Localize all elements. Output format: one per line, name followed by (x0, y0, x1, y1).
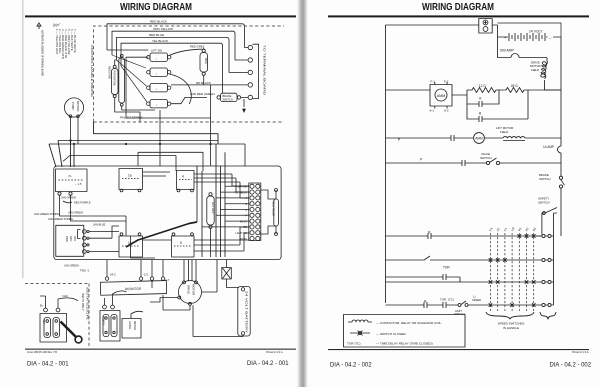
bottom rule right page (328, 349, 589, 350)
svg-text:DRIVE: DRIVE (187, 285, 191, 294)
wire switch1 to RES (169, 48, 204, 56)
resistor .12 ohm (452, 84, 499, 95)
svg-text:-2.5: -2.5 (143, 272, 148, 276)
dashed speed-switch columns F3 F2 F1 1/0 R1 R2 R3 (491, 233, 534, 311)
svg-text:14 AMP: 14 AMP (543, 145, 554, 149)
svg-text:KEY: KEY (42, 320, 45, 325)
svg-text:FIELD: FIELD (531, 68, 539, 72)
title underline right page (328, 15, 589, 17)
fuse block F1 (222, 268, 232, 280)
wire pot bottom to box exit (115, 98, 140, 122)
svg-text:F-2: F-2 (444, 80, 449, 84)
speed row 1 (386, 213, 558, 239)
disconnect switch terminals (103, 305, 107, 309)
svg-text:SPEED: SPEED (472, 298, 481, 302)
disconnect switch DS (100, 311, 120, 342)
brake switch SW-B (217, 93, 241, 101)
wire pump motor to bus (71, 118, 79, 145)
svg-text:LIFT SW: LIFT SW (238, 186, 248, 189)
svg-text:.05 Ω: .05 Ω (510, 84, 518, 88)
svg-text:24 VOLT: 24 VOLT (529, 30, 542, 34)
wire motor left (150, 298, 178, 303)
14 amp fuse in right rail (543, 90, 561, 163)
svg-text:7 — BLUE WHITE: 7 — BLUE WHITE (73, 29, 77, 53)
main fuse CB1 (479, 19, 492, 34)
right terminus rail (553, 236, 555, 305)
right rail upper (560, 37, 562, 90)
wire fuse to battery (492, 25, 497, 37)
svg-text:— SWITCH CLOSED: — SWITCH CLOSED (376, 332, 407, 336)
svg-text:MOTOR: MOTOR (192, 284, 196, 296)
pump contactor P (56, 169, 88, 200)
wire battery bottom to truck (193, 305, 243, 336)
bus wire from handle box left (94, 122, 219, 144)
wire disconnect up (105, 291, 127, 305)
wire RES bottom down (203, 75, 205, 85)
svg-text:1a: 1a (128, 173, 132, 177)
svg-text:Printed in U.S.A.: Printed in U.S.A. (266, 350, 283, 354)
key switch KS (40, 314, 67, 343)
svg-text:A-1: A-1 (430, 109, 435, 113)
handle switch S2 (147, 68, 171, 76)
svg-text:LIFT RES: LIFT RES (211, 202, 215, 214)
svg-text:RED BLACK: RED BLACK (150, 20, 167, 24)
wires key switch up (40, 296, 78, 308)
battery loop outline (498, 23, 562, 37)
wire rd black to terminal 4 (171, 84, 248, 86)
svg-text:B+: B+ (40, 304, 44, 308)
svg-text:1₎ₒ: 1₎ₒ (473, 294, 476, 298)
vertical feeders mid (197, 144, 225, 257)
ammeter AMM (shunt box) (430, 80, 453, 113)
svg-text:RESISTOR: RESISTOR (108, 66, 111, 79)
wire fuse to enclosure (226, 260, 228, 268)
svg-text:SWITCH: SWITCH (539, 177, 550, 181)
brace under speed columns (486, 312, 534, 319)
svg-text:JAN GREEN STRIPE: JAN GREEN STRIPE (48, 217, 73, 221)
resistor (power unit) vertical (207, 193, 215, 229)
svg-text:DIA - 04.2 - 001: DIA - 04.2 - 001 (27, 361, 69, 368)
svg-text:JAN GREEN: JAN GREEN (61, 196, 76, 200)
wires drive motor to enclosure (184, 260, 217, 292)
resistor .05 ohm (499, 84, 561, 93)
second feeder (159, 110, 161, 166)
pump motor M1 (64, 98, 83, 117)
svg-text:DIA - 04.2 - 002: DIA - 04.2 - 002 (330, 362, 372, 369)
svg-text:TWO -2: TWO -2 (80, 269, 90, 273)
svg-text:RES: RES (204, 58, 208, 64)
left rail (385, 25, 387, 303)
svg-text:JAN GREEN STRIPE: JAN GREEN STRIPE (34, 212, 59, 216)
svg-text:||•|²•°: ||•|²•° (53, 23, 61, 27)
legend switch-closed symbol (350, 331, 370, 336)
wiper bar (vertical) (119, 58, 125, 104)
svg-text:DIA - 04.2 - 001: DIA - 04.2 - 001 (247, 360, 289, 367)
svg-text:FIELD RESIST: FIELD RESIST (272, 201, 275, 218)
bus wire upper horizontal 2 (49, 144, 245, 166)
wire fuse to battery (227, 279, 240, 288)
svg-text:OFF: OFF (73, 236, 77, 242)
svg-text:TO TERMINAL BOARD: TO TERMINAL BOARD (263, 45, 267, 96)
relay lower wires (143, 227, 250, 251)
wires joining switches left side (107, 50, 148, 102)
svg-text:REV: REV (69, 236, 73, 242)
svg-text:YEL BLACK: YEL BLACK (152, 39, 168, 43)
handle switch S1 (147, 49, 171, 62)
svg-text:JAN BLUE: JAN BLUE (93, 222, 106, 226)
legend box (344, 315, 466, 348)
speed row 3 (386, 280, 554, 284)
svg-text:— CONTACTOR, RELAY OR SOLENOI: — CONTACTOR, RELAY OR SOLENOID COIL (376, 321, 442, 325)
svg-text:UNITS ONLY: UNITS ONLY (81, 293, 85, 311)
curved wire from S2 right (169, 74, 191, 104)
wire bus inside handle box (126, 57, 211, 118)
potentiometer resistor (vertical) (108, 65, 119, 97)
svg-text:TOR: TOR (440, 297, 446, 301)
svg-text:SWITCH: SWITCH (538, 200, 549, 204)
svg-text:LIFT SW: LIFT SW (151, 49, 162, 53)
drive motor studs (183, 281, 186, 284)
terminal board TB1 (234, 183, 260, 241)
wire fan into terminal board (202, 186, 249, 227)
svg-text:WIRING DIAGRAM: WIRING DIAGRAM (120, 2, 192, 13)
wire relay c bottom (131, 236, 156, 258)
emphasized wire diagonal (126, 222, 197, 247)
svg-text:RD-BT: RD-BT (240, 220, 248, 223)
svg-text:BRAKE: BRAKE (223, 94, 232, 98)
svg-text:RD BLACK: RD BLACK (196, 81, 211, 85)
anchor glyph alternate placement note (37, 23, 41, 29)
svg-text:500 AMP: 500 AMP (500, 48, 514, 52)
svg-text:LIMIT: LIMIT (455, 309, 462, 313)
svg-text:CHG: CHG (62, 294, 68, 298)
wire from hour meter (131, 311, 143, 318)
svg-text:WIRING DIAGRAM: WIRING DIAGRAM (422, 2, 494, 13)
svg-text:HOUR: HOUR (128, 322, 132, 330)
wire bus lower (63, 156, 176, 172)
relay B (177, 171, 195, 192)
wires enclosure to resistor bar (107, 260, 163, 277)
wires selector to relays (89, 226, 119, 252)
wire resistor bottom (210, 228, 212, 257)
svg-text:(TC): (TC) (448, 297, 454, 301)
resistor R-BAR (100, 281, 166, 296)
key lever (61, 322, 77, 338)
svg-text:Printed in U.S.A.: Printed in U.S.A. (572, 350, 589, 354)
inner distribution rect (138, 152, 203, 171)
title underline (25, 15, 296, 17)
svg-text:SWITCH: SWITCH (223, 97, 233, 101)
svg-text:24 VOLT BATTERY: 24 VOLT BATTERY (245, 291, 249, 333)
svg-text:POWER: POWER (101, 316, 103, 325)
svg-text:RED PURPLE: RED PURPLE (74, 200, 91, 204)
contact A (467, 90, 499, 107)
vertical feeder leaving handle box (210, 85, 212, 166)
svg-text:RD: RD (244, 226, 248, 229)
wire orn yellow (112, 31, 248, 60)
svg-text:RED GREY: RED GREY (190, 45, 205, 49)
resistor terminal studs (105, 277, 108, 280)
top wire rail to fuse (386, 24, 479, 26)
terminal circles TO TERMINAL BOARD (248, 44, 266, 99)
svg-text:TOR: TOR (443, 266, 450, 270)
handle switch S3 (147, 84, 171, 92)
battery B1 24 volt (238, 287, 250, 337)
svg-text:DIA - 04.2 - 002: DIA - 04.2 - 002 (550, 362, 592, 369)
handle switch S4 horn button (147, 100, 171, 108)
FWD REV selector box (56, 225, 89, 256)
dashed bottom of control handle box (94, 121, 285, 123)
labelled wires left cluster (60, 195, 127, 236)
hose nozzle note (63, 201, 72, 203)
time delay branch TOR (386, 266, 461, 282)
svg-text:T.D. RELAY: T.D. RELAY (234, 191, 247, 194)
lift motor field row (386, 126, 562, 143)
svg-text:USED ON TELESCOPIC: USED ON TELESCOPIC (86, 287, 90, 321)
horn wire stub (151, 280, 153, 288)
key switch terminals (44, 308, 48, 312)
valve switch row (386, 152, 562, 166)
wire S4 to brake switch (171, 97, 207, 103)
svg-text:A-7: A-7 (165, 278, 170, 282)
svg-text:METER: METER (133, 321, 137, 330)
wire rail to ammeter (386, 89, 431, 91)
speed row 4 (1st speed) (386, 294, 554, 316)
legend coil symbol (348, 320, 372, 322)
svg-text:4: 4 (182, 174, 184, 178)
svg-text:JAN GREEN: JAN GREEN (64, 264, 79, 268)
safety switch (538, 196, 561, 236)
svg-text:Crown 1988 PF-1400 Rev. 7/76: Crown 1988 PF-1400 Rev. 7/76 (27, 350, 57, 354)
field resistor (right of board) (272, 199, 279, 226)
speed row 2 (386, 256, 554, 262)
wire motor bottom loop (163, 295, 190, 310)
hour meter HM (122, 319, 141, 339)
svg-text:→ 1.5: → 1.5 (74, 182, 82, 186)
wire board to field resistor (260, 190, 276, 234)
svg-text:5: 5 (180, 241, 182, 245)
relay C (119, 233, 143, 257)
svg-text:FIELD: FIELD (500, 130, 508, 134)
svg-text:2ND RED GREEN: 2ND RED GREEN (190, 92, 215, 96)
svg-text:SPEED SWITCHES: SPEED SWITCHES (498, 321, 525, 325)
svg-text:LIGHT SW: LIGHT SW (235, 232, 247, 235)
svg-text:PUMP: PUMP (71, 102, 75, 110)
svg-text:SWITCH: SWITCH (480, 156, 491, 160)
svg-text:IN HANDLE: IN HANDLE (503, 326, 519, 330)
contact B (467, 90, 528, 122)
wire brake switch to terminal 5 (241, 97, 248, 112)
svg-text:7+: 7+ (68, 174, 72, 178)
wire yel black (121, 43, 223, 93)
control handle dashed enclosure (94, 26, 285, 122)
svg-text:AMM: AMM (437, 94, 445, 98)
telescopic units dashed boundary (25, 284, 89, 347)
left page edge shadow (22, 0, 23, 278)
drive motor M2 (179, 281, 202, 304)
bus wire upper horizontal 1 (58, 140, 218, 142)
wire pot top (115, 60, 117, 65)
drive motor field L1 (530, 58, 561, 91)
svg-text:FWD: FWD (65, 236, 69, 242)
bottom rule (25, 349, 296, 350)
wire red blue (117, 37, 249, 72)
pump motor terminals (69, 115, 72, 118)
svg-text:— TIME DELAY RELAY (TIME C: — TIME DELAY RELAY (TIME CLOSED) (376, 342, 433, 346)
svg-text:RED BLUE: RED BLUE (149, 33, 164, 37)
svg-text:POTENTIOM.: POTENTIOM. (113, 71, 116, 87)
svg-text:AMM: AMM (475, 137, 483, 141)
brace under terminal circles (540, 312, 556, 319)
500 amp fuse (498, 37, 548, 58)
relay D (172, 233, 195, 257)
arrow below brake switch (243, 109, 246, 112)
svg-text:24-2: 24-2 (110, 272, 116, 276)
battery 24 VOLT (498, 30, 562, 41)
brake switch (right rail) (539, 163, 565, 205)
relay wires to terminal board (143, 172, 250, 198)
lift ammeter (474, 133, 485, 144)
bus diagonal drops to contactor (49, 141, 74, 168)
wire top red black (107, 24, 248, 50)
svg-text:RD-BK: RD-BK (240, 238, 248, 241)
svg-text:TOR (TC): TOR (TC) (347, 342, 361, 346)
svg-text:RESISTOR: RESISTOR (125, 287, 142, 291)
svg-text:ALTERNATE PLACEMENT OF TERMINA: ALTERNATE PLACEMENT OF TERMINAL BOARD (41, 30, 45, 77)
svg-text:MOTOR: MOTOR (76, 101, 80, 111)
relay A (119, 169, 143, 192)
node junctions (69, 139, 211, 145)
svg-text:ORN YELLOW: ORN YELLOW (153, 27, 173, 31)
resistor RES (control handle) (190, 45, 208, 76)
svg-text:A-2: A-2 (444, 109, 449, 113)
